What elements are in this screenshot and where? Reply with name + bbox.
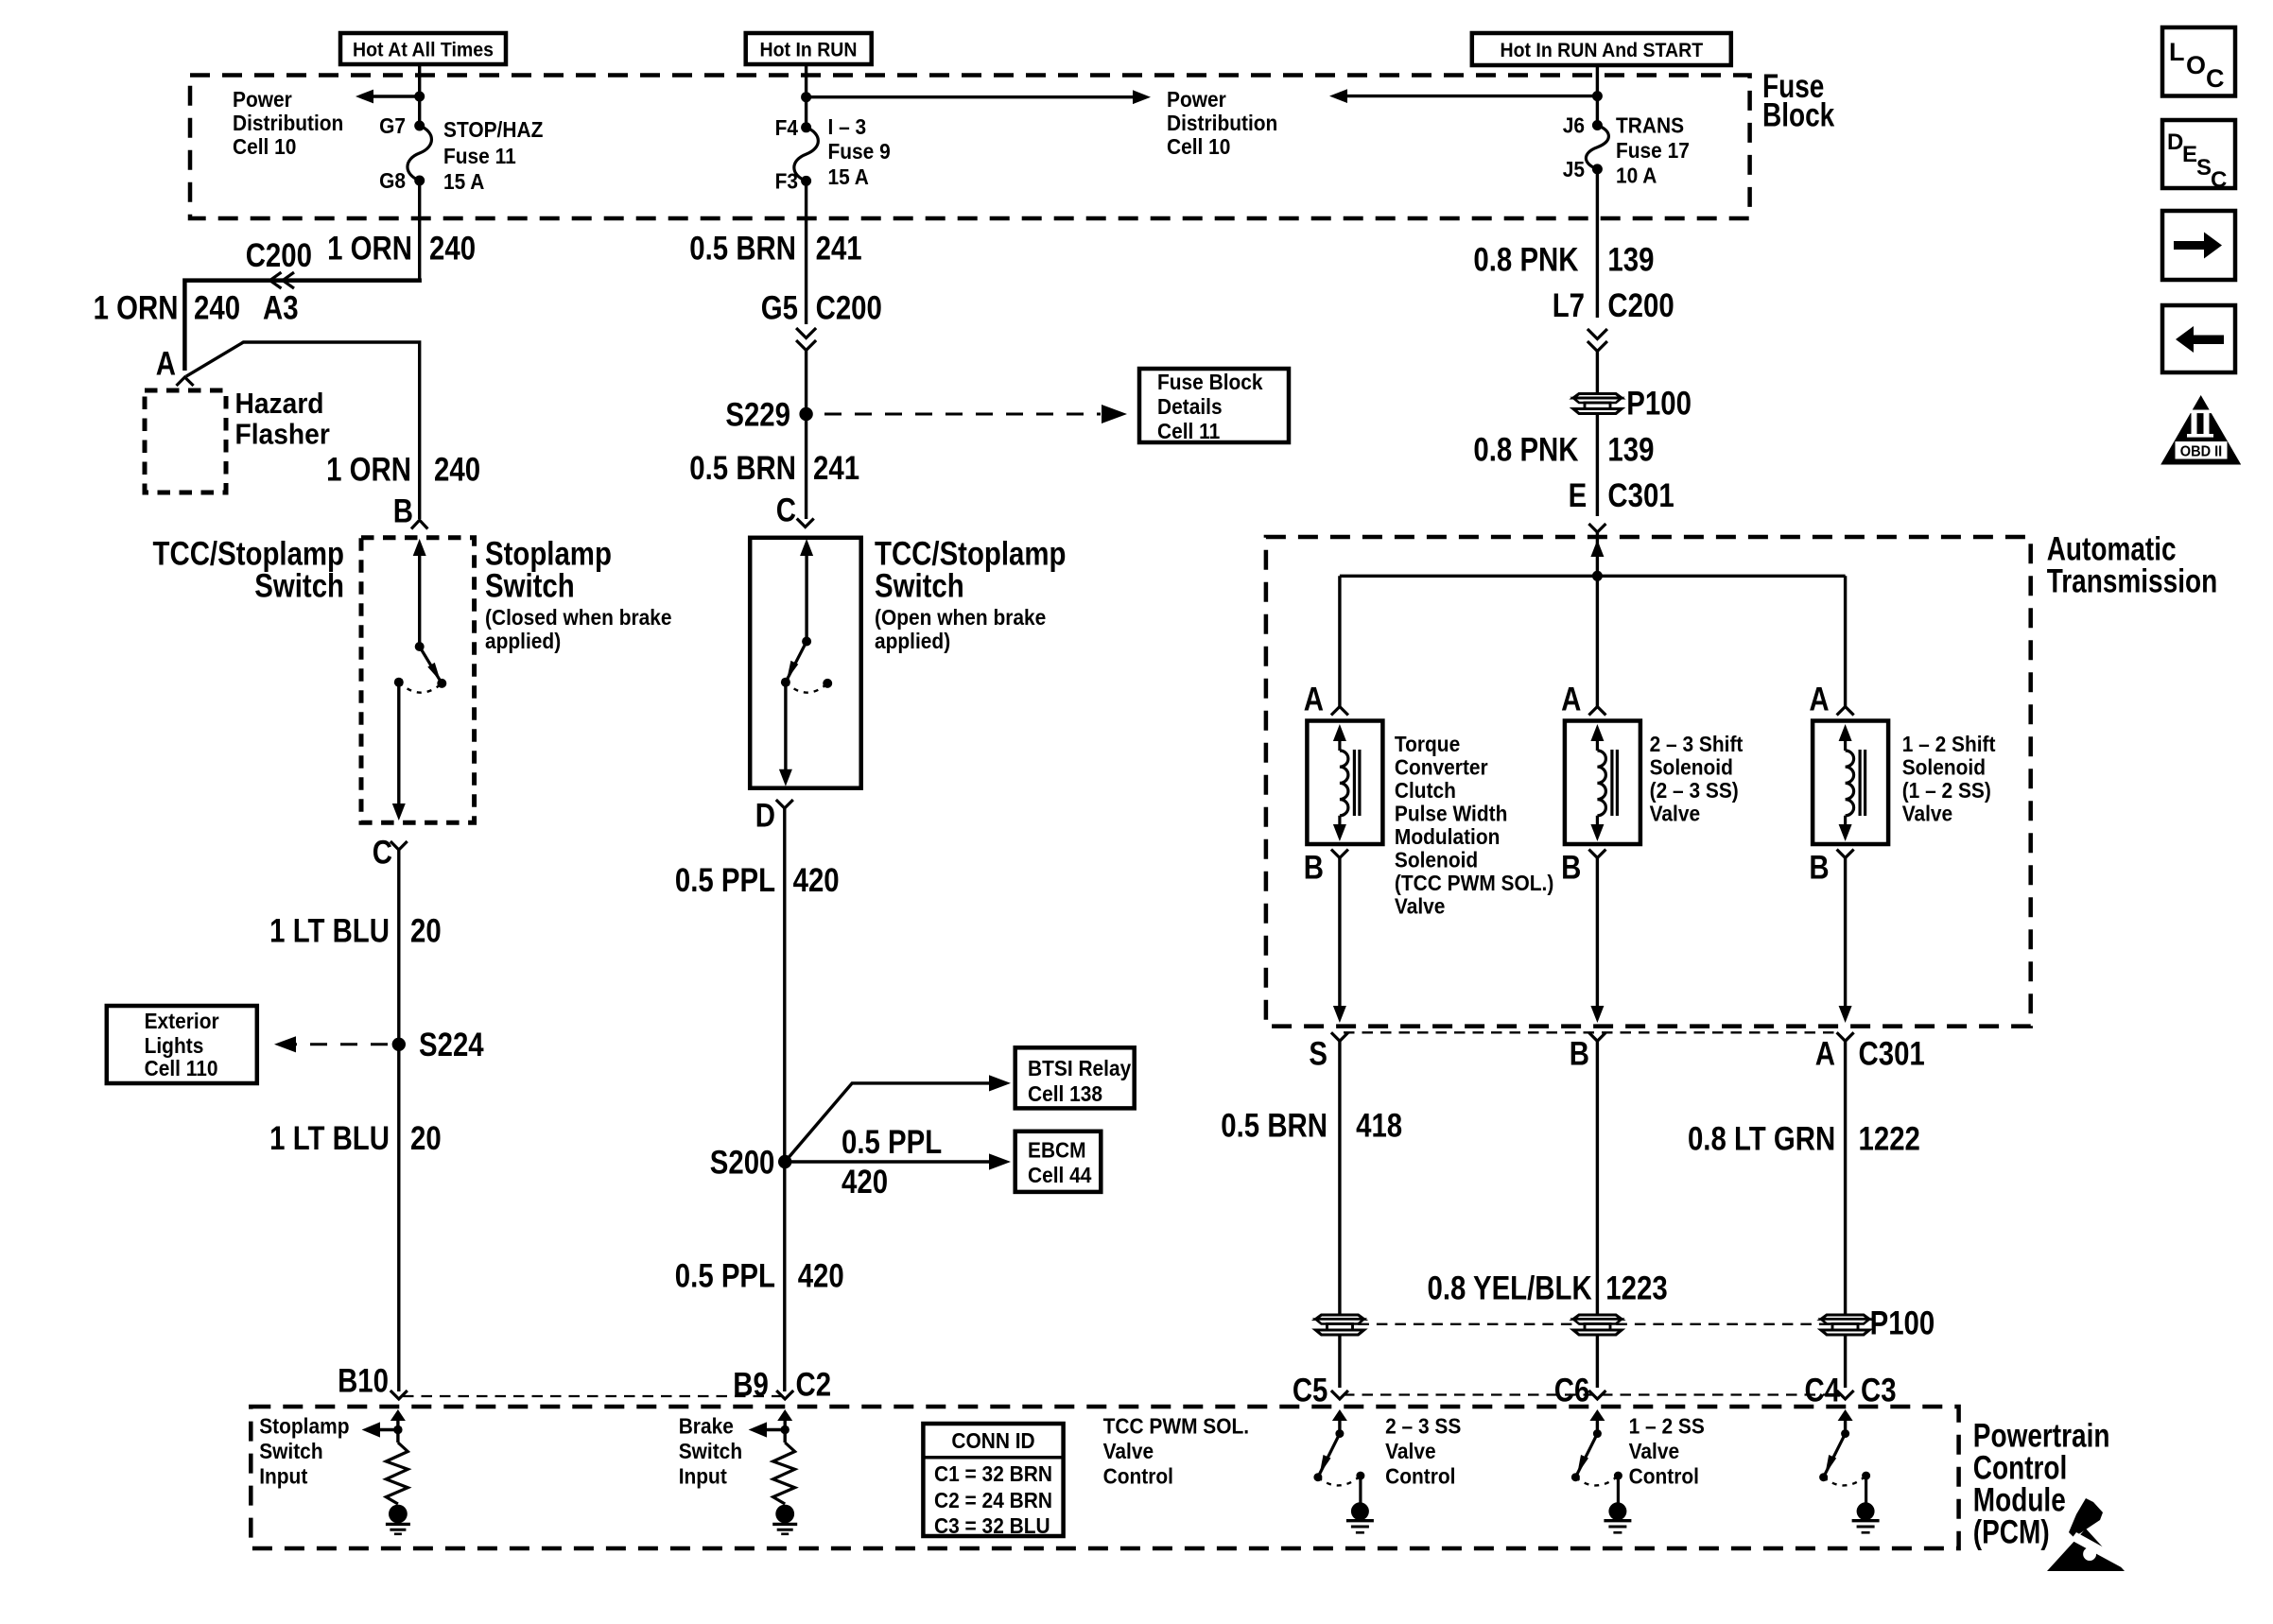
legend icon DESC — [2162, 120, 2235, 193]
svg-text:Valve: Valve — [1650, 802, 1700, 826]
svg-text:2 – 3 SS: 2 – 3 SS — [1385, 1413, 1461, 1438]
stoplamp switch input arrow and wire — [413, 539, 426, 647]
svg-text:C6: C6 — [1554, 1372, 1590, 1408]
text Power Distribution Cell 10 (middle) — [1167, 87, 1277, 159]
automatic transmission dashed box — [1266, 537, 2031, 1027]
2-3 SS valve control label — [1385, 1413, 1461, 1488]
svg-text:B: B — [1809, 849, 1829, 886]
junction node left fuse — [414, 92, 425, 102]
svg-text:0.5 BRN: 0.5 BRN — [689, 450, 796, 487]
svg-text:P100: P100 — [1626, 385, 1692, 422]
svg-text:C200: C200 — [246, 236, 312, 273]
fuse block dashed box — [190, 76, 1750, 219]
svg-text:S: S — [2196, 155, 2212, 181]
svg-text:Cell 110: Cell 110 — [145, 1056, 218, 1080]
svg-text:Input: Input — [679, 1464, 728, 1489]
pcm 2-3 switch contact left — [1571, 1473, 1580, 1481]
label P100 (bottom) — [1870, 1304, 1935, 1341]
solenoid TCC coil symbol — [1333, 724, 1360, 841]
svg-text:C4: C4 — [1805, 1372, 1841, 1408]
pin label G7 — [379, 113, 406, 138]
fuse F9 I-3 (F4-F3) — [794, 122, 819, 186]
svg-text:0.8 YEL/BLK: 0.8 YEL/BLK — [1427, 1270, 1592, 1306]
resistor stoplamp input — [386, 1443, 408, 1504]
svg-text:OBD II: OBD II — [2180, 443, 2222, 460]
svg-text:C3 = 32 BLU: C3 = 32 BLU — [934, 1513, 1050, 1538]
svg-text:240: 240 — [194, 289, 240, 326]
svg-text:1 ORN: 1 ORN — [94, 289, 179, 326]
grommet P100 (middle wire) — [1573, 1315, 1622, 1335]
wire label 0.5 BRN 418 — [1221, 1107, 1402, 1144]
wire 0.8 PNK 139 from fuse 17 down — [1596, 169, 1599, 318]
label S229 — [725, 396, 790, 433]
solenoid 2-3 shift box — [1565, 721, 1640, 845]
svg-text:Cell 10: Cell 10 — [1167, 134, 1230, 159]
svg-text:F4: F4 — [775, 115, 799, 140]
svg-text:Transmission: Transmission — [2047, 562, 2217, 600]
svg-text:Fuse Block: Fuse Block — [1157, 370, 1263, 394]
wire 2-3 solenoid B to C301 — [1590, 858, 1604, 1024]
svg-text:0.8 LT GRN: 0.8 LT GRN — [1688, 1120, 1835, 1157]
pin label F4 — [775, 115, 799, 140]
text Power Distribution Cell 10 (left) — [233, 87, 343, 159]
svg-text:139: 139 — [1607, 241, 1654, 278]
pcm stoplamp input arrow — [390, 1409, 406, 1443]
stoplamp switch output wire — [392, 682, 406, 821]
dashed reference arrow S229 to fuse block details — [824, 405, 1127, 423]
pin label B (TCC solenoid) — [1304, 849, 1324, 886]
svg-text:Details: Details — [1157, 394, 1223, 419]
wire label 1 LT BLU 20 (upper) — [269, 912, 442, 949]
svg-text:B: B — [1304, 849, 1324, 886]
svg-text:TRANS: TRANS — [1616, 113, 1684, 138]
pin label A (TCC solenoid) — [1304, 681, 1324, 717]
wire label 1 ORN 240 (top) — [327, 230, 476, 267]
pin label D — [755, 797, 775, 834]
svg-text:S200: S200 — [710, 1144, 775, 1181]
legend icon OBD II triangle — [2160, 395, 2241, 465]
svg-text:(PCM): (PCM) — [1973, 1512, 2050, 1550]
svg-text:1222: 1222 — [1859, 1120, 1920, 1157]
svg-text:Stoplamp: Stoplamp — [259, 1414, 349, 1439]
svg-text:Modulation: Modulation — [1395, 824, 1500, 849]
stoplamp switch contact left — [394, 678, 404, 687]
svg-text:Control: Control — [1103, 1464, 1173, 1489]
connector B9 C2 label — [733, 1366, 831, 1403]
pcm 1-2 switch contact right — [1862, 1472, 1870, 1480]
pin label J5 — [1563, 157, 1585, 181]
label Fuse Block — [1762, 67, 1835, 133]
svg-text:1 ORN: 1 ORN — [327, 230, 412, 267]
connector chevron at C4/C3 — [1837, 1391, 1854, 1399]
wire P100 to C6 — [1596, 1335, 1599, 1388]
svg-text:241: 241 — [813, 450, 859, 487]
connector chevron at D — [776, 800, 793, 808]
reference box Exterior Lights Cell 110 — [107, 1006, 257, 1083]
pin label B (stoplamp switch) — [393, 492, 413, 529]
connector C200 chevrons (A3) — [270, 272, 295, 288]
svg-text:C2 = 24 BRN: C2 = 24 BRN — [934, 1488, 1052, 1512]
svg-text:C200: C200 — [1607, 286, 1674, 323]
pcm 1-2 switch contact left — [1819, 1473, 1828, 1481]
wire bus to 1-2 solenoid A — [1844, 576, 1847, 706]
wire label 0.8 PNK 139 (upper) — [1473, 241, 1654, 278]
PCM dashed box — [251, 1407, 1958, 1548]
pcm TCC switch contact right — [1356, 1472, 1364, 1480]
grommet dashed line P100 row — [1340, 1323, 1846, 1325]
svg-text:L7: L7 — [1553, 286, 1585, 323]
svg-text:Cell 11: Cell 11 — [1157, 419, 1220, 443]
svg-text:B: B — [393, 492, 413, 529]
svg-text:Valve: Valve — [1395, 894, 1445, 919]
svg-text:Fuse 17: Fuse 17 — [1616, 138, 1690, 163]
svg-text:Solenoid: Solenoid — [1395, 848, 1478, 872]
svg-text:241: 241 — [816, 230, 862, 267]
svg-text:240: 240 — [429, 230, 476, 267]
connector L7 C200 label — [1553, 286, 1674, 323]
pin label B10 — [338, 1362, 389, 1399]
pcm 2-3 switch arm — [1575, 1434, 1597, 1477]
svg-text:G8: G8 — [379, 168, 406, 193]
fuse 9 value label — [828, 114, 891, 189]
junction node bus — [1592, 571, 1603, 581]
svg-text:Input: Input — [259, 1464, 308, 1489]
svg-text:(2 – 3 SS): (2 – 3 SS) — [1650, 778, 1739, 803]
tcc switch input arrow and wire — [800, 539, 813, 642]
svg-text:CONN ID: CONN ID — [951, 1428, 1034, 1453]
pcm 1-2 switch pivot node — [1841, 1429, 1849, 1438]
pcm 2-3 switch pivot node — [1593, 1429, 1602, 1438]
svg-text:A: A — [1809, 681, 1829, 717]
svg-text:20: 20 — [410, 912, 442, 949]
svg-text:0.5 BRN: 0.5 BRN — [1221, 1107, 1327, 1144]
pcm 2-3 switch contact right — [1614, 1472, 1622, 1480]
tcc switch throw arc — [786, 682, 827, 693]
pcm TCC switch arm — [1318, 1434, 1340, 1477]
connector chevron at B9 — [776, 1391, 793, 1399]
wire P100 to C301 — [1596, 414, 1599, 516]
wire horizontal to C200 — [184, 281, 422, 371]
svg-text:Power: Power — [1167, 87, 1226, 112]
svg-text:Solenoid: Solenoid — [1902, 755, 1986, 780]
svg-text:D: D — [2167, 130, 2183, 155]
ground brake input — [772, 1505, 797, 1534]
svg-text:E: E — [2182, 142, 2197, 167]
legend icon arrow left — [2162, 305, 2235, 372]
connector chevron at B — [411, 520, 427, 528]
svg-text:1 ORN: 1 ORN — [326, 451, 411, 488]
svg-text:15 A: 15 A — [443, 169, 485, 194]
pin chevron A 2-3 solenoid — [1588, 707, 1605, 716]
grommet P100 (left wire) — [1316, 1315, 1364, 1335]
svg-text:C: C — [2206, 64, 2225, 93]
svg-text:Distribution: Distribution — [233, 111, 343, 135]
tcc switch contact right — [823, 679, 832, 688]
connector C200 double chevron (L7) — [1588, 329, 1607, 352]
pcm 1-2 switch throw arc — [1824, 1476, 1866, 1485]
svg-text:0.8 PNK: 0.8 PNK — [1473, 241, 1579, 278]
svg-text:S229: S229 — [725, 396, 790, 433]
svg-text:A3: A3 — [263, 289, 299, 326]
label S200 — [710, 1144, 775, 1181]
pin chevron A TCC solenoid — [1331, 707, 1348, 716]
label Powertrain Control Module (PCM) — [1973, 1416, 2110, 1550]
label Hazard Flasher — [235, 388, 331, 451]
pcm TCC switch pivot node — [1335, 1429, 1344, 1438]
svg-text:Switch: Switch — [875, 567, 964, 604]
wire power distribution arrow left — [356, 90, 420, 104]
label S224 — [419, 1027, 484, 1063]
pin chevron B 2-3 solenoid — [1588, 850, 1605, 858]
pin label C5 — [1293, 1372, 1328, 1408]
hazard flasher dashed box — [145, 390, 226, 492]
svg-text:J6: J6 — [1563, 113, 1585, 138]
pcm 1-2 ground post — [1852, 1476, 1880, 1532]
wire from Hot At All Times into fuse block — [418, 64, 421, 126]
wire C200 to P100 — [1596, 351, 1599, 393]
svg-text:Valve: Valve — [1902, 802, 1952, 826]
svg-text:0.8 PNK: 0.8 PNK — [1473, 431, 1579, 468]
svg-text:A: A — [156, 345, 176, 382]
svg-text:B10: B10 — [338, 1362, 389, 1399]
svg-text:Control: Control — [1629, 1464, 1699, 1489]
wire label 0.5 PPL 420 (upper) — [675, 861, 840, 898]
pin label A (2-3 solenoid) — [1561, 681, 1581, 717]
svg-text:1 – 2 Shift: 1 – 2 Shift — [1902, 732, 1996, 756]
connector chevron at C6 — [1588, 1391, 1605, 1399]
pcm 2-3 switch throw arc — [1575, 1476, 1618, 1485]
pin label A (1-2 solenoid) — [1809, 681, 1829, 717]
resistor brake input — [773, 1443, 795, 1504]
ESD sensitive symbol — [2047, 1498, 2131, 1571]
svg-text:Hot In RUN And START: Hot In RUN And START — [1500, 40, 1703, 61]
pcm 1-2 switch input arrow — [1838, 1409, 1853, 1434]
pcm stoplamp input node — [393, 1425, 402, 1434]
wire power distribution arrow right (middle) — [807, 90, 1151, 104]
pin chevron B TCC solenoid — [1331, 850, 1348, 858]
tcc switch contact left — [781, 678, 790, 687]
label TCC/Stoplamp Switch (middle) — [875, 535, 1066, 653]
ground stoplamp input — [386, 1505, 410, 1534]
svg-text:0.5 PPL: 0.5 PPL — [842, 1124, 942, 1161]
svg-text:1 LT BLU: 1 LT BLU — [269, 912, 390, 949]
reference box EBCM Cell 44 — [1015, 1132, 1102, 1192]
reference box BTSI Relay Cell 138 — [1015, 1047, 1135, 1108]
svg-text:P100: P100 — [1870, 1304, 1935, 1341]
svg-text:G7: G7 — [379, 113, 406, 138]
legend icon arrow right — [2162, 211, 2235, 280]
pcm brake left arrow — [749, 1422, 786, 1437]
svg-text:Hot In RUN: Hot In RUN — [759, 40, 857, 61]
brake switch input label — [679, 1414, 742, 1489]
pin label A (hazard flasher) — [156, 345, 176, 382]
wire 0.5 PPL 420 from D to S200 — [783, 808, 786, 1391]
svg-text:1223: 1223 — [1605, 1270, 1667, 1306]
svg-text:Solenoid: Solenoid — [1650, 755, 1733, 780]
pcm brake input arrow — [777, 1409, 792, 1443]
solenoid 2-3 coil symbol — [1590, 724, 1617, 841]
pcm connector dashed line B10-B9 — [403, 1395, 781, 1397]
svg-text:10 A: 10 A — [1616, 164, 1657, 188]
stoplamp switch input label — [259, 1414, 349, 1489]
svg-text:Cell 44: Cell 44 — [1028, 1163, 1092, 1187]
svg-text:Hazard: Hazard — [235, 388, 324, 421]
svg-text:STOP/HAZ: STOP/HAZ — [443, 117, 543, 142]
svg-text:0.5 PPL: 0.5 PPL — [675, 861, 775, 898]
wire from A to stoplamp switch B branch — [186, 342, 420, 519]
splice S224 — [392, 1038, 406, 1051]
pin label G8 — [379, 168, 406, 193]
wire label 1 LT BLU 20 (lower) — [269, 1119, 442, 1156]
svg-text:Power: Power — [233, 87, 292, 112]
svg-text:420: 420 — [842, 1164, 888, 1201]
svg-text:EBCM: EBCM — [1028, 1138, 1086, 1163]
svg-text:(TCC PWM SOL.): (TCC PWM SOL.) — [1395, 871, 1553, 895]
pin label C4 C3 — [1805, 1372, 1897, 1408]
wire from Hot In RUN into fuse block — [805, 64, 807, 128]
header box Hot In RUN — [746, 33, 872, 64]
svg-text:C200: C200 — [816, 289, 882, 326]
middle switch solid box (tcc/stoplamp switch) — [750, 538, 861, 788]
wire label 0.8 LT GRN 1222 — [1688, 1120, 1920, 1157]
svg-text:Valve: Valve — [1629, 1439, 1679, 1463]
pcm connector dashed line C5-C4 — [1344, 1393, 1841, 1395]
svg-text:B: B — [1561, 849, 1581, 886]
svg-text:15 A: 15 A — [828, 164, 870, 189]
svg-text:240: 240 — [434, 451, 480, 488]
wire label 0.8 YEL/BLK 1223 — [1427, 1270, 1667, 1306]
svg-text:2 – 3 Shift: 2 – 3 Shift — [1650, 732, 1744, 756]
svg-text:Block: Block — [1762, 95, 1835, 133]
svg-text:C3: C3 — [1861, 1372, 1897, 1408]
legend icon LOC — [2162, 27, 2235, 96]
svg-text:F3: F3 — [775, 168, 798, 193]
svg-text:Fuse 11: Fuse 11 — [443, 144, 516, 168]
wire from C200 to S229 — [805, 350, 807, 519]
svg-text:Pulse Width: Pulse Width — [1395, 802, 1507, 826]
stoplamp switch arm — [420, 647, 442, 683]
svg-text:Valve: Valve — [1103, 1439, 1154, 1463]
pin chevron B 1-2 solenoid — [1837, 850, 1854, 858]
svg-text:Switch: Switch — [485, 567, 575, 604]
wire label 0.5 BRN 241 (upper) — [689, 230, 861, 267]
header box Hot At All Times — [340, 33, 506, 64]
svg-text:A: A — [1561, 681, 1581, 717]
grommet P100 (right column) — [1573, 394, 1622, 414]
fuse F17 TRANS (J6-J5) — [1586, 120, 1608, 174]
svg-text:applied): applied) — [875, 629, 950, 653]
svg-text:C: C — [776, 492, 796, 528]
svg-text:D: D — [755, 797, 775, 834]
svg-text:C: C — [2211, 167, 2227, 193]
label Torque Converter Clutch PWM solenoid — [1395, 732, 1553, 919]
wire label 0.5 PPL 420 (lower) — [675, 1257, 844, 1294]
svg-text:420: 420 — [793, 861, 840, 898]
pcm TCC switch input arrow — [1332, 1409, 1347, 1434]
label TCC/Stoplamp Switch (left) — [153, 535, 344, 604]
wire P100 to C5 — [1338, 1335, 1341, 1388]
wire power distribution arrow left (right fuse) — [1329, 89, 1597, 103]
junction node right fuse — [1592, 91, 1603, 101]
svg-text:Clutch: Clutch — [1395, 778, 1456, 803]
tcc switch arm — [786, 642, 807, 682]
svg-text:A: A — [1304, 681, 1324, 717]
svg-text:Valve: Valve — [1385, 1439, 1435, 1463]
CONN ID table — [923, 1424, 1063, 1538]
pin label J6 — [1563, 113, 1585, 138]
pcm 1-2 switch arm — [1824, 1434, 1846, 1477]
connector chevron at C (left) — [390, 841, 408, 850]
pin label C (tcc switch) — [776, 492, 796, 528]
pin chevron A 1-2 solenoid — [1837, 707, 1854, 716]
wire 1 LT BLU 20 from C to S224 — [397, 850, 400, 1391]
connector chevron at C5 — [1331, 1391, 1348, 1399]
wire label 0.8 PNK 139 (lower) — [1473, 431, 1654, 468]
wire branch S200 to BTSI relay — [785, 1075, 1011, 1162]
pcm TCC switch throw arc — [1318, 1476, 1361, 1485]
fuse 11 value label — [443, 117, 543, 194]
svg-text:Switch: Switch — [254, 567, 344, 604]
connector chevron at E — [1588, 524, 1605, 532]
svg-text:O: O — [2186, 51, 2206, 79]
svg-text:Brake: Brake — [679, 1414, 734, 1439]
svg-text:B: B — [1570, 1035, 1589, 1072]
svg-text:A: A — [1815, 1035, 1835, 1072]
svg-text:Converter: Converter — [1395, 755, 1488, 780]
pcm brake input node — [781, 1425, 789, 1434]
svg-text:Distribution: Distribution — [1167, 111, 1277, 135]
svg-text:20: 20 — [410, 1119, 442, 1156]
connector C301 dashed line — [1344, 1031, 1841, 1033]
left switch dashed box (stoplamp switch) — [361, 538, 475, 822]
stoplamp switch pivot node — [415, 642, 425, 651]
svg-text:C301: C301 — [1859, 1035, 1925, 1072]
label C200 at A3 — [246, 236, 312, 273]
svg-text:Torque: Torque — [1395, 732, 1460, 756]
connector chevron at C (middle) — [797, 519, 814, 527]
1-2 SS valve control label — [1629, 1413, 1705, 1488]
splice S200 — [778, 1155, 791, 1168]
svg-text:(Open when brake: (Open when brake — [875, 605, 1046, 630]
pin label C (left switch) — [373, 834, 392, 871]
dashed reference arrow S224 to exterior lights — [274, 1036, 388, 1052]
svg-text:C5: C5 — [1293, 1372, 1328, 1408]
wire 0.5 BRN 241 from fuse 9 down — [805, 181, 807, 324]
svg-text:C1 = 32 BRN: C1 = 32 BRN — [934, 1461, 1052, 1486]
stoplamp switch contact right — [437, 679, 446, 688]
svg-text:G5: G5 — [761, 289, 798, 326]
wire 1-2 solenoid B to C301 — [1839, 858, 1852, 1024]
tcc switch output wire — [779, 682, 792, 786]
connector chevron B at C301 — [1588, 1032, 1605, 1041]
solenoid TCC PWM SOL box — [1307, 721, 1382, 845]
svg-text:C2: C2 — [796, 1366, 832, 1403]
wire 0.5 BRN 418 — [1338, 1041, 1341, 1315]
label Stoplamp Switch (Closed when brake applied) — [485, 535, 672, 653]
svg-text:Switch: Switch — [679, 1439, 742, 1463]
svg-text:TCC PWM SOL.: TCC PWM SOL. — [1103, 1413, 1249, 1438]
connector C200 double chevron (G5) — [796, 328, 816, 351]
svg-text:1 – 2 SS: 1 – 2 SS — [1629, 1413, 1705, 1438]
svg-text:Cell 10: Cell 10 — [233, 134, 296, 159]
tcc switch pivot node — [802, 637, 811, 647]
solenoid 1-2 shift box — [1813, 721, 1888, 845]
pin label C6 — [1554, 1372, 1590, 1408]
svg-text:Control: Control — [1385, 1464, 1455, 1489]
wire 0.8 LT GRN 1222 — [1844, 1041, 1847, 1315]
wire E into transmission — [1590, 532, 1604, 576]
svg-text:Cell 138: Cell 138 — [1028, 1081, 1102, 1106]
